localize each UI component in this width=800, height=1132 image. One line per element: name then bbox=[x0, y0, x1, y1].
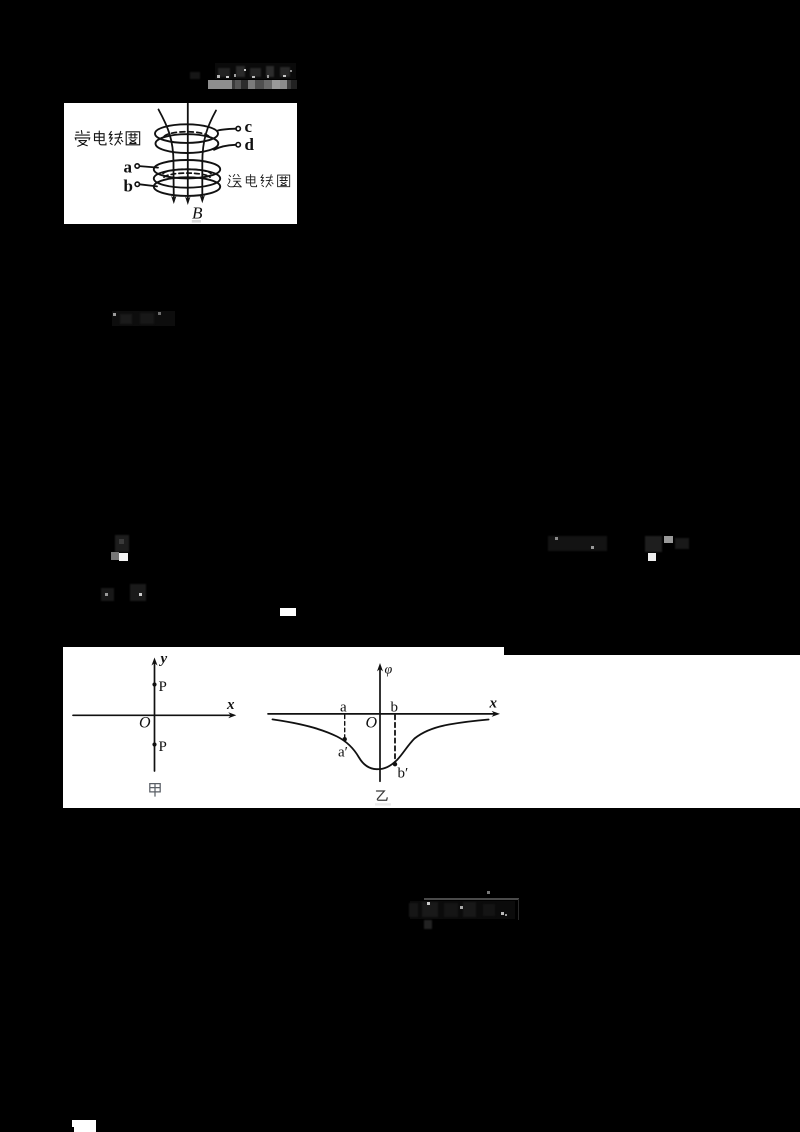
point b' bbox=[393, 762, 397, 766]
svg-text:b′: b′ bbox=[398, 766, 409, 782]
dashed drop line b bbox=[394, 715, 396, 762]
svg-text:φ: φ bbox=[385, 663, 393, 678]
svg-text:B: B bbox=[192, 204, 203, 223]
point P upper bbox=[153, 683, 157, 687]
text 甲 (left caption) bbox=[150, 784, 160, 796]
terminal b circle bbox=[135, 182, 139, 186]
wire to a bbox=[139, 166, 158, 168]
wire to b bbox=[139, 185, 156, 187]
faint right-side marks row bbox=[548, 536, 607, 551]
figure 2: graphs bbox=[63, 647, 800, 808]
garbled title block 1 bbox=[190, 72, 200, 79]
left graph x-axis bbox=[73, 715, 230, 717]
receiving coil: upper ellipse E1 bbox=[155, 125, 218, 144]
terminal d circle bbox=[236, 143, 240, 147]
point a' bbox=[343, 737, 347, 741]
svg-text:a′: a′ bbox=[338, 745, 348, 761]
faint underline below 乙 bbox=[375, 804, 391, 806]
faint heading 2 bbox=[112, 311, 175, 326]
wire to c bbox=[217, 129, 235, 131]
right graph phi-axis bbox=[379, 669, 381, 781]
svg-text:b: b bbox=[391, 700, 399, 716]
potential curve bbox=[273, 720, 489, 770]
faint heading 3 left bbox=[101, 588, 114, 601]
field line left bbox=[158, 110, 173, 199]
terminal a circle bbox=[135, 164, 139, 168]
svg-text:O: O bbox=[366, 715, 378, 732]
sending coil E3 bbox=[154, 160, 220, 178]
wire to d bbox=[214, 145, 236, 150]
text 乙 (right caption) bbox=[377, 791, 388, 800]
field line center bbox=[187, 104, 189, 199]
text 受电线圈 bbox=[75, 131, 140, 147]
svg-text:b: b bbox=[123, 177, 132, 196]
svg-text:d: d bbox=[244, 135, 254, 154]
dashed drop line a bbox=[344, 715, 346, 738]
svg-text:a: a bbox=[123, 158, 132, 177]
receiving coil dashed back rim bbox=[164, 132, 209, 137]
svg-text:P: P bbox=[159, 739, 167, 755]
point P lower bbox=[153, 743, 157, 747]
svg-text:a: a bbox=[340, 700, 347, 716]
white dash bbox=[280, 608, 296, 616]
receiving coil: lower ellipse E2 bbox=[155, 135, 218, 154]
left graph y-axis bbox=[154, 663, 156, 771]
sending coil E5 bbox=[154, 178, 220, 197]
svg-text:P: P bbox=[159, 679, 167, 695]
black notch top-right of figure 2 bbox=[504, 647, 800, 655]
field line right bbox=[202, 111, 216, 198]
svg-text:c: c bbox=[244, 118, 252, 137]
svg-text:O: O bbox=[139, 715, 151, 732]
svg-text:y: y bbox=[159, 651, 168, 667]
bottom-left white mark bbox=[72, 1120, 96, 1132]
sending coil dashed rims bbox=[163, 170, 211, 174]
sending coil E4 bbox=[154, 170, 220, 188]
garbled heading 3 (boxed) bbox=[424, 898, 519, 900]
figure 1: wireless coil diagram bbox=[64, 103, 297, 224]
gray block row of title 1 bbox=[208, 80, 232, 89]
svg-text:x: x bbox=[489, 696, 498, 712]
svg-text:x: x bbox=[226, 697, 235, 713]
right graph x-axis bbox=[268, 713, 494, 715]
terminal c circle bbox=[236, 127, 240, 131]
faint f-mark with squares bbox=[115, 535, 129, 552]
text 送电线圈 bbox=[227, 175, 289, 188]
